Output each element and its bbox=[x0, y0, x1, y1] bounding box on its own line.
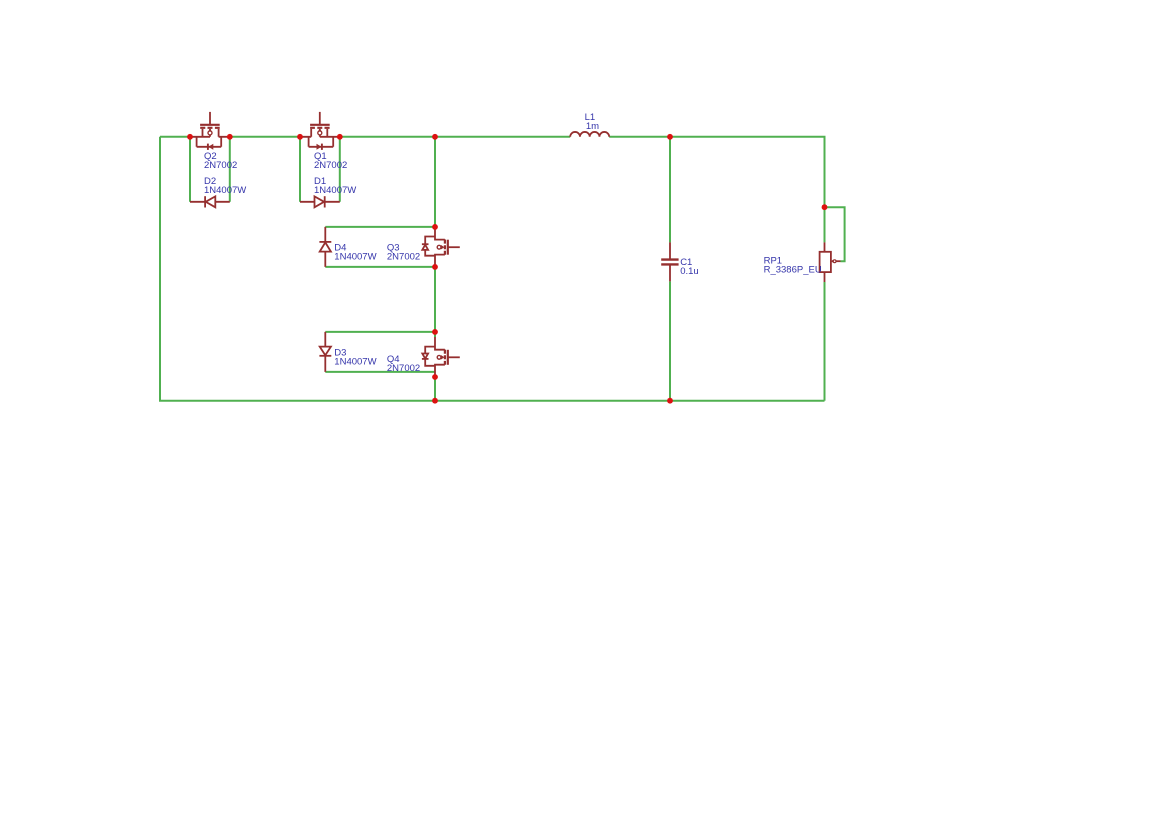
svg-text:2N7002: 2N7002 bbox=[387, 363, 420, 374]
wire D1 loop left vertical bbox=[299, 137, 301, 202]
wire mid vertical top bbox=[434, 137, 436, 227]
diode D1 bbox=[300, 196, 340, 207]
junction D4 loop top bbox=[432, 224, 438, 230]
wire mid vertical bottom bbox=[434, 377, 436, 401]
diode D4 bbox=[319, 227, 331, 267]
svg-text:2N7002: 2N7002 bbox=[314, 160, 347, 171]
transistor Q3 bbox=[422, 227, 460, 267]
inductor L1 bbox=[570, 132, 609, 137]
wire top rail left segment bbox=[160, 136, 190, 138]
wire D2 loop right vertical bbox=[229, 137, 231, 202]
wire right rail middle bbox=[824, 207, 826, 242]
junction bottom rail C1 bbox=[667, 398, 673, 404]
svg-text:2N7002: 2N7002 bbox=[387, 252, 420, 263]
junction right rail wiper tap bbox=[822, 204, 828, 210]
transistor Q4 bbox=[422, 337, 460, 377]
wire top rail Q1-L1 segment bbox=[340, 136, 570, 138]
svg-text:1N4007W: 1N4007W bbox=[204, 185, 246, 196]
junction D4 loop bottom bbox=[432, 264, 438, 270]
wire C1 branch lower bbox=[669, 281, 671, 400]
wire D4 loop top horizontal bbox=[325, 226, 435, 228]
junction top rail C1 branch bbox=[667, 134, 673, 140]
transistor Q1 bbox=[300, 112, 340, 150]
svg-text:R_3386P_EU: R_3386P_EU bbox=[764, 265, 822, 276]
wire mid vertical between loops bbox=[434, 267, 436, 337]
wire top rail L1-right corner and right rail upper bbox=[609, 137, 824, 207]
junction top rail Q2 left bbox=[187, 134, 193, 140]
capacitor C1 bbox=[661, 242, 678, 281]
wire D3 loop top horizontal bbox=[325, 331, 435, 333]
junction bottom rail mid bbox=[432, 398, 438, 404]
svg-text:1N4007W: 1N4007W bbox=[334, 252, 376, 263]
wire RP1 wiper loop bbox=[825, 207, 845, 261]
junction top rail Q1 left bbox=[297, 134, 303, 140]
junction top rail Q1 right bbox=[337, 134, 343, 140]
svg-text:1N4007W: 1N4007W bbox=[314, 185, 356, 196]
wire C1 branch upper bbox=[669, 137, 671, 243]
wire right rail lower bbox=[824, 282, 826, 401]
potentiometer RP1 bbox=[820, 242, 841, 282]
svg-text:1N4007W: 1N4007W bbox=[334, 357, 376, 368]
wire D1 loop right vertical bbox=[339, 137, 341, 202]
wire D2 loop left vertical bbox=[189, 137, 191, 202]
junction D3 loop top bbox=[432, 329, 438, 335]
wire D3 loop bottom horizontal bbox=[325, 371, 435, 373]
svg-text:2N7002: 2N7002 bbox=[204, 160, 237, 171]
diode D3 bbox=[319, 332, 331, 372]
junction top rail Q2 right bbox=[227, 134, 233, 140]
wire D4 loop bottom horizontal bbox=[325, 266, 435, 268]
wire top rail Q2-Q1 segment bbox=[230, 136, 300, 138]
junction Q4 source bbox=[432, 374, 438, 380]
transistor Q2 bbox=[190, 112, 230, 150]
junction top rail mid vertical bbox=[432, 134, 438, 140]
wire left rail and bottom rail bbox=[160, 137, 825, 401]
svg-text:1m: 1m bbox=[586, 121, 599, 132]
diode D2 bbox=[190, 196, 230, 207]
svg-text:0.1u: 0.1u bbox=[680, 266, 699, 277]
